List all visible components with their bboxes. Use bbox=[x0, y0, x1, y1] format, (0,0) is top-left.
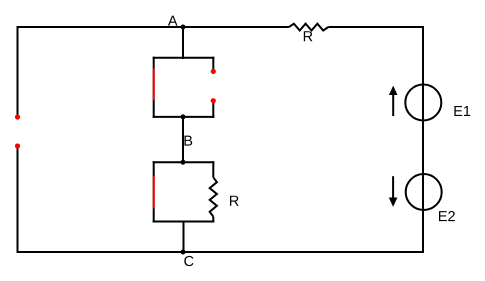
wire: node B down to box K2 top bbox=[182, 117, 184, 163]
box K1 right lower lead (from open switch contact) bbox=[212, 101, 214, 118]
wire: left rail lower segment (open terminal down to bottom-left corner) bbox=[17, 146, 19, 253]
box K2 bottom side bbox=[153, 221, 215, 223]
element (red segment) on box K2 left side bbox=[153, 176, 155, 208]
label E1 (source E1) bbox=[454, 106, 470, 116]
wire: left rail upper segment (top-left corner down to open terminal) bbox=[17, 26, 19, 117]
label B (node B) bbox=[185, 136, 193, 146]
wire: top rail from resistor R to top-right corner bbox=[328, 26, 424, 28]
open terminal (red dot, lower left) bbox=[15, 143, 20, 148]
current direction arrow head for E1 bbox=[389, 86, 398, 95]
label E2 (source E2) bbox=[439, 211, 455, 221]
open terminal (red dot, upper left) bbox=[15, 114, 20, 119]
label A (node A) bbox=[168, 16, 178, 26]
box K1 bottom side bbox=[153, 116, 215, 118]
current source E2 (circle symbol) bbox=[406, 174, 442, 210]
switch contact (red dot, upper) bbox=[211, 69, 216, 74]
label C (node C) bbox=[184, 256, 193, 266]
wire: top rail from top-left corner to resistor R bbox=[17, 26, 290, 28]
box K1 right upper lead (to open switch contact) bbox=[212, 57, 214, 72]
resistor R (box K2 right side, vertical zigzag) bbox=[210, 177, 217, 216]
switch contact (red dot, lower) bbox=[211, 98, 216, 103]
wire: bottom rail (bottom-left corner to bottom-right corner) bbox=[17, 251, 425, 253]
resistor R (top rail, horizontal zigzag) bbox=[289, 24, 328, 31]
node C (junction dot on bottom rail) bbox=[181, 250, 186, 255]
node A (junction dot on top rail) bbox=[181, 25, 186, 30]
box K1 left side bbox=[153, 57, 155, 118]
box K2 right upper lead bbox=[212, 161, 214, 177]
current direction arrow for E1 (shaft, pointing up) bbox=[392, 94, 394, 117]
current source E1 (circle symbol) bbox=[405, 85, 441, 121]
label R (top resistor value label) bbox=[304, 31, 313, 41]
wire: right rail (top-right corner down to bottom-right corner) bbox=[422, 26, 424, 253]
box K1 top side bbox=[153, 57, 215, 59]
current direction arrow head for E2 bbox=[389, 198, 398, 207]
element (red segment) on box K1 left side bbox=[153, 68, 155, 100]
node junction dot on box K2 top bbox=[181, 160, 186, 165]
node B (junction dot at box K1 bottom) bbox=[181, 114, 186, 119]
wire: box K2 bottom down to node C bbox=[183, 222, 185, 253]
box K2 left side bbox=[153, 161, 155, 222]
wire: node A down to box K1 top bbox=[182, 27, 184, 59]
box K2 right lower lead bbox=[212, 217, 214, 223]
current direction arrow for E2 (shaft, pointing down) bbox=[392, 176, 394, 199]
box K2 top side bbox=[153, 161, 215, 163]
label R (box K2 resistor value label) bbox=[230, 196, 239, 206]
